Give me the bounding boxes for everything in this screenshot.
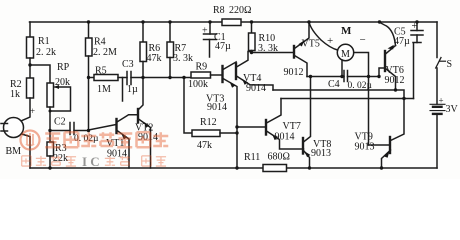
wire microphone to ground rail (22, 134, 31, 168)
svg-text:RP: RP (57, 62, 70, 73)
wire R4 top (88, 22, 90, 38)
resistor R5 (94, 75, 118, 81)
switch S (436, 58, 441, 69)
svg-text:+: + (30, 106, 35, 116)
wire branch node (122, 78, 124, 102)
svg-text:3V: 3V (446, 104, 459, 115)
svg-text:3. 3k: 3. 3k (173, 53, 193, 64)
wire R9 to VT3 base (211, 74, 223, 76)
wire node to R12 (184, 78, 192, 134)
svg-text:9014: 9014 (138, 132, 158, 143)
svg-text:100k: 100k (188, 79, 208, 90)
svg-text:C2: C2 (54, 117, 66, 128)
resistor R9 (191, 72, 211, 78)
svg-text:C4: C4 (328, 79, 340, 90)
svg-text:M: M (341, 49, 350, 60)
wire motor plus to rail (309, 22, 338, 50)
wire RP wiper (50, 87, 71, 111)
wire R2 top (29, 65, 31, 78)
wire C2 right (74, 130, 89, 132)
wire RP bottom to R3 (49, 107, 51, 142)
svg-text:R9: R9 (196, 62, 208, 73)
svg-text:I C: I C (82, 154, 100, 169)
transistor VT3 (221, 66, 223, 82)
wire R3 to ground rail (49, 156, 51, 168)
svg-text:0. 02µ: 0. 02µ (348, 81, 373, 91)
svg-text:R5: R5 (95, 66, 107, 77)
svg-text:9013: 9013 (355, 142, 375, 153)
potentiometer RP (47, 83, 54, 107)
wire R5 to C3 (118, 77, 127, 79)
svg-text:2. 2M: 2. 2M (93, 47, 117, 58)
svg-text:+: + (202, 26, 208, 37)
resistor R2 (27, 78, 34, 98)
svg-text:9014: 9014 (207, 102, 227, 113)
svg-text:47k: 47k (147, 53, 162, 64)
wire feedback upper (273, 90, 404, 99)
battery 3V (430, 103, 445, 105)
svg-text:20k: 20k (55, 77, 70, 88)
wire R7 top (169, 22, 171, 42)
svg-text:9014: 9014 (275, 132, 295, 143)
svg-text:3. 3k: 3. 3k (258, 43, 278, 54)
resistor R10 (249, 33, 256, 51)
resistor R7 (167, 42, 174, 58)
wire R6 bottom (142, 62, 144, 78)
wire motor bottom (341, 60, 343, 77)
svg-text:9012: 9012 (385, 75, 405, 86)
svg-text:VT5: VT5 (302, 39, 320, 50)
svg-text:C3: C3 (122, 59, 134, 70)
svg-text:M: M (341, 25, 352, 37)
wire motor drive node (307, 76, 344, 78)
svg-text:+: + (327, 35, 333, 47)
transistor VT4 (235, 64, 237, 80)
wire node to RP (30, 65, 50, 83)
svg-text:47k: 47k (197, 140, 212, 151)
wire motor minus (354, 53, 369, 146)
svg-text:BM: BM (6, 146, 22, 157)
wire C2 left (50, 130, 70, 132)
wire VT5 base (252, 52, 294, 54)
capacitor C4 (343, 71, 345, 82)
wire VT7 base (237, 126, 266, 128)
svg-text:2. 2k: 2. 2k (36, 47, 56, 58)
wire R4 bottom to VT1 base node (88, 56, 90, 131)
wire R1 bottom (29, 58, 31, 65)
wire C5 bottom down (413, 43, 415, 99)
resistor R8 in supply rail (222, 19, 241, 26)
wire bottom ground rail (30, 167, 437, 169)
wire R6 top (142, 22, 144, 42)
resistor R6 (140, 42, 147, 62)
capacitor C3 (126, 72, 128, 85)
svg-text:1k: 1k (10, 89, 20, 100)
transistor VT1 (115, 119, 117, 133)
svg-text:9012: 9012 (284, 67, 304, 78)
resistor R12 (192, 130, 220, 137)
wire R1 top (29, 22, 31, 37)
svg-text:+: + (439, 96, 444, 106)
svg-text:S: S (447, 59, 453, 70)
wire R10 bottom node (251, 51, 253, 53)
svg-text:47µ: 47µ (394, 36, 410, 47)
capacitor C2 (69, 123, 71, 135)
svg-text:R8: R8 (213, 5, 225, 16)
wire R12 right (220, 132, 237, 134)
transistor VT5 (293, 46, 295, 58)
svg-text:R1: R1 (38, 36, 50, 47)
wire signal node to R9 (143, 77, 191, 79)
svg-text:R11: R11 (244, 152, 260, 163)
wire battery branch (436, 22, 438, 58)
svg-text:R4: R4 (94, 37, 106, 48)
wire feedback lower (281, 98, 414, 100)
transistor VT8 (302, 138, 304, 154)
svg-text:+: + (412, 21, 418, 32)
svg-text:VT7: VT7 (283, 121, 301, 132)
capacitor C5 (416, 22, 418, 31)
svg-text:680Ω: 680Ω (268, 152, 290, 163)
resistor R3 (47, 142, 54, 156)
wire R10 top (251, 22, 253, 33)
svg-text:9013: 9013 (311, 148, 331, 159)
svg-text:9014: 9014 (246, 83, 266, 94)
wire R5 left (89, 77, 95, 79)
transistor VT9 (389, 137, 391, 153)
wire C4 right to VT6 base (348, 68, 385, 77)
wire VT2 collector (139, 78, 144, 110)
wire top supply rail (30, 21, 438, 23)
wire C3 right to node (131, 77, 143, 79)
capacitor C1 (209, 22, 211, 34)
svg-text:1µ: 1µ (127, 84, 138, 95)
wire R7 bottom (169, 58, 171, 78)
resistor R4 (86, 38, 93, 56)
svg-text:220Ω: 220Ω (229, 5, 251, 16)
microphone BM (4, 118, 24, 138)
motor M (337, 44, 353, 60)
watermark (21, 131, 169, 150)
transistor VT7 (265, 120, 267, 135)
svg-text:47µ: 47µ (215, 41, 231, 52)
resistor R1 (27, 37, 34, 58)
transistor VT2 (137, 109, 139, 123)
svg-text:R12: R12 (200, 117, 217, 128)
transistor VT6 (384, 51, 386, 71)
resistor R11 in ground rail (263, 165, 287, 172)
svg-text:1M: 1M (97, 84, 111, 95)
wire R2 to microphone (22, 98, 30, 121)
svg-text:−: − (360, 34, 366, 46)
